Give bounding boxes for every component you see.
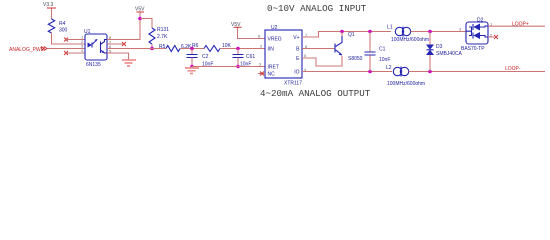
svg-text:10nF: 10nF	[379, 57, 390, 63]
pin number D2-3	[459, 27, 462, 32]
title text 4~20mA ANALOG OUTPUT	[260, 88, 371, 99]
svg-text:6N135: 6N135	[86, 62, 101, 68]
junction R131 main wire	[150, 47, 154, 51]
pin number U2-3	[259, 62, 262, 67]
svg-text:U2: U2	[271, 25, 278, 31]
svg-text:VREG: VREG	[268, 37, 282, 43]
svg-text:100MHz/600ohm: 100MHz/600ohm	[391, 37, 429, 43]
title text 0~10V ANALOG INPUT	[267, 3, 367, 14]
no-connect X on U1 pin1	[64, 38, 68, 42]
ground under C2	[185, 67, 199, 74]
wire ANALOG_PWM to U1 pin3	[47, 48, 85, 50]
pin number U2-5	[304, 53, 307, 58]
resistor R6	[192, 43, 232, 52]
inductor L2	[386, 65, 425, 87]
wire V5V to U1 pin8	[107, 13, 140, 40]
inductor L1	[387, 25, 429, 44]
TVS diode D3	[426, 32, 463, 72]
junction C1 top	[368, 30, 372, 34]
pin number U2-4	[304, 67, 307, 72]
wire U1 pin7 stub	[107, 43, 124, 45]
no-connect X on U1 pin4	[64, 51, 68, 55]
svg-text:LOOP-: LOOP-	[505, 66, 521, 72]
svg-text:C61: C61	[246, 54, 255, 60]
power symbol V5V left	[135, 7, 145, 14]
junction C61 bottom	[236, 65, 240, 69]
svg-text:IO: IO	[294, 70, 299, 76]
svg-text:NC: NC	[268, 72, 276, 78]
svg-text:R5: R5	[159, 44, 166, 50]
diode D2 BAS70-TP	[461, 18, 488, 53]
optocoupler U1	[84, 29, 107, 68]
wire L1 to D2 pin3	[411, 31, 466, 33]
pin number U1-3	[81, 44, 84, 49]
resistor R4	[48, 19, 67, 34]
svg-text:BAS70-TP: BAS70-TP	[461, 46, 485, 52]
pin number U2-2	[260, 44, 263, 49]
svg-text:C2: C2	[202, 54, 209, 60]
pin number U1-7	[109, 40, 112, 45]
capacitor C2	[187, 49, 214, 68]
svg-text:IIN: IIN	[268, 47, 275, 53]
svg-text:R6: R6	[192, 43, 199, 49]
pin number U1-5	[109, 49, 112, 54]
svg-text:C1: C1	[379, 47, 386, 53]
port LOOP-	[505, 66, 521, 72]
svg-text:V3.3: V3.3	[43, 2, 54, 8]
wire U2 IO to bottom rail	[302, 71, 392, 73]
junction C1 bottom	[368, 70, 372, 74]
wire U2 E to Q1 emitter	[302, 56, 342, 66]
transistor Q1	[335, 32, 363, 63]
resistor R131	[149, 27, 169, 44]
svg-text:ANALOG_PWM: ANALOG_PWM	[9, 47, 45, 53]
port LOOP+	[512, 22, 529, 28]
junction D3 top	[428, 30, 432, 34]
wire L2 to LOOP-	[409, 71, 545, 73]
svg-text:6.2K: 6.2K	[181, 44, 192, 50]
no-connect X on D2 pin2	[488, 35, 498, 39]
svg-text:IRET: IRET	[268, 65, 279, 71]
svg-text:S8050: S8050	[348, 56, 363, 62]
junction C61 node	[236, 47, 240, 51]
wire U2 V+ to top rail	[302, 32, 391, 38]
pin number U1-2	[81, 39, 84, 44]
junction C2 bottom	[190, 65, 194, 69]
wire VREG to V5V	[238, 28, 266, 39]
svg-text:XTR117: XTR117	[284, 81, 302, 87]
wire R5 to R6	[180, 48, 204, 50]
pin number U1-4	[81, 48, 84, 53]
capacitor C1	[365, 32, 391, 72]
power symbol V3.3	[43, 2, 56, 9]
power symbol V5V mid	[231, 22, 242, 28]
svg-text:0~10V ANALOG INPUT: 0~10V ANALOG INPUT	[267, 3, 367, 14]
wire U1 pin5 to ground	[107, 53, 129, 60]
wire D2 pin1 to LOOP+	[488, 25, 545, 27]
pin number U2-8	[258, 34, 261, 39]
svg-text:U1: U1	[84, 29, 91, 35]
pin number U2-7	[305, 33, 308, 38]
svg-text:D2: D2	[477, 18, 484, 24]
svg-text:2.7K: 2.7K	[157, 34, 168, 40]
junction D3 bottom	[428, 70, 432, 74]
svg-text:100MHz/600ohm: 100MHz/600ohm	[387, 81, 425, 87]
svg-text:D3: D3	[436, 44, 443, 50]
pin number U1-8	[109, 35, 112, 40]
resistor R5	[159, 44, 192, 52]
svg-text:300: 300	[59, 28, 68, 34]
svg-text:Q1: Q1	[348, 32, 355, 38]
pin number D2-2	[490, 33, 493, 38]
port ANALOG_PWM	[9, 47, 47, 54]
wire R4 to U1 pin2	[52, 33, 86, 44]
no-connect X on U2 NC pin	[258, 72, 265, 76]
IC U2 XTR117	[265, 25, 302, 87]
svg-text:R131: R131	[157, 27, 169, 33]
svg-text:LOOP+: LOOP+	[512, 22, 529, 28]
junction Q1 collector	[340, 30, 344, 34]
wire U1 pin1 stub	[66, 39, 85, 41]
svg-text:L2: L2	[386, 65, 392, 71]
pin number U1-1	[81, 35, 84, 40]
wire R6 to U2 pin2	[220, 48, 265, 50]
pin number U2-6	[305, 44, 308, 49]
wire V3.3 to R4	[51, 9, 53, 20]
wire R131 to main node	[151, 44, 153, 49]
svg-text:SMBJ40CA: SMBJ40CA	[436, 51, 463, 57]
ground under U1 pin5	[122, 60, 136, 66]
wire U1 pin4 stub	[66, 52, 85, 54]
pin number D2-1	[490, 22, 493, 27]
wire V5V node to R131	[140, 19, 152, 29]
junction C2 node	[190, 47, 194, 51]
wire U2 B to Q1 base	[302, 48, 335, 50]
svg-text:R4: R4	[59, 21, 66, 27]
wire IRET net	[192, 66, 265, 68]
wire U1 pin6 to R5	[107, 48, 166, 50]
pin number U1-6	[109, 44, 112, 49]
svg-text:4~20mA ANALOG OUTPUT: 4~20mA ANALOG OUTPUT	[260, 88, 371, 99]
capacitor C61	[233, 49, 256, 68]
no-connect X on U1 pin7	[122, 42, 126, 46]
svg-text:L1: L1	[387, 25, 393, 31]
svg-text:V+: V+	[293, 35, 299, 41]
junction V5V node	[138, 17, 142, 21]
